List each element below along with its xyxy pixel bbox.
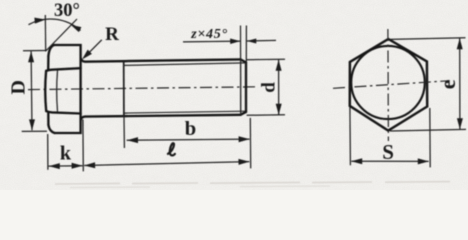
k arrow left	[49, 163, 60, 169]
D dimension line	[30, 51, 33, 130]
k / l shared extension	[82, 120, 84, 172]
facet edge upper	[46, 68, 81, 71]
label l (script ell drawn as path)	[168, 143, 175, 155]
hexagon	[350, 39, 427, 131]
svg-text:k: k	[60, 142, 72, 164]
head outer-face silhouette (middle band, slight bulge)	[44, 71, 47, 111]
D arrow bottom	[29, 119, 35, 130]
S extension left	[349, 107, 352, 165]
30deg construction vertical line	[44, 15, 46, 52]
bolt head outline	[45, 45, 80, 133]
l dimension line	[84, 162, 249, 166]
svg-text:b: b	[185, 118, 196, 140]
arrowheads, left view	[28, 17, 282, 170]
l / b right extension	[249, 118, 251, 168]
shank outline	[81, 59, 246, 120]
head bottom-left chamfer arc	[48, 125, 54, 133]
facet edge lower	[46, 111, 80, 113]
30deg arc arrow near vertical line	[34, 17, 46, 24]
svg-text:e: e	[435, 79, 460, 89]
e dimension line	[459, 38, 461, 129]
d arrow bottom	[276, 104, 282, 115]
R arrow	[80, 50, 92, 62]
centerline horizontal	[333, 81, 448, 89]
paper background	[0, 0, 468, 190]
z extension line 2 (over end face)	[245, 26, 247, 62]
k arrow right	[72, 163, 83, 169]
e arrow bottom	[457, 118, 463, 129]
svg-text:z×45°: z×45°	[190, 27, 228, 42]
b dimension line	[127, 139, 250, 140]
head top-left chamfer arc	[48, 45, 54, 56]
D arrow top	[28, 51, 34, 62]
e extension bottom	[390, 129, 466, 131]
chamfer start line	[240, 59, 242, 114]
shank bottom line with fillet at head	[81, 115, 241, 120]
D extension top	[23, 50, 46, 52]
d extension bottom	[247, 114, 285, 117]
svg-text:S: S	[382, 140, 394, 164]
b arrow right	[239, 136, 250, 142]
30deg slant line	[46, 19, 77, 51]
S extension right	[429, 108, 431, 167]
S dimension line	[351, 160, 428, 162]
l arrow right	[238, 159, 249, 165]
d dimension line	[278, 60, 280, 115]
end chamfer bottom	[241, 112, 247, 115]
head upper band left edge	[47, 56, 50, 70]
svg-text:d: d	[258, 82, 279, 93]
centerline vertical	[387, 29, 390, 141]
30deg angular arc	[29, 19, 81, 31]
shank top line with fillet at head	[81, 59, 241, 62]
svg-text:R: R	[105, 24, 119, 45]
thread start line	[123, 61, 125, 116]
30deg arc arrow at slant line	[70, 22, 82, 32]
chamfer circle	[351, 46, 425, 119]
z arrow right (pointing left)	[247, 38, 256, 43]
faint print bleed-through streaks along bottom	[55, 182, 450, 184]
k dimension line	[49, 165, 83, 167]
k extension left	[47, 134, 49, 170]
b arrow left	[127, 137, 138, 143]
head lower band left edge	[47, 112, 49, 124]
d arrow top	[276, 60, 282, 71]
R leader	[85, 40, 102, 57]
svg-text:D: D	[8, 80, 30, 94]
z extension line 1 (over chamfer start)	[240, 26, 242, 60]
z x 45 dimension line right part	[247, 39, 276, 42]
S arrow left	[351, 158, 362, 164]
l arrow left	[84, 162, 95, 168]
S arrow right	[418, 158, 429, 164]
svg-text:30°: 30°	[54, 1, 80, 21]
z x 45 dimension line left part	[183, 40, 240, 43]
z arrow left (pointing right)	[230, 38, 240, 44]
end face	[245, 62, 247, 112]
b extension left (below thread start line)	[123, 117, 125, 149]
end chamfer top	[241, 59, 247, 62]
chamfer curve on front facet	[56, 70, 59, 111]
e extension top	[390, 38, 466, 40]
D extension bottom	[22, 130, 47, 132]
d extension top	[247, 58, 285, 61]
thread minor diameter lines	[124, 63, 246, 113]
axis centerline	[28, 87, 258, 90]
dimensions, right view	[350, 38, 466, 168]
e arrow top	[457, 38, 463, 49]
